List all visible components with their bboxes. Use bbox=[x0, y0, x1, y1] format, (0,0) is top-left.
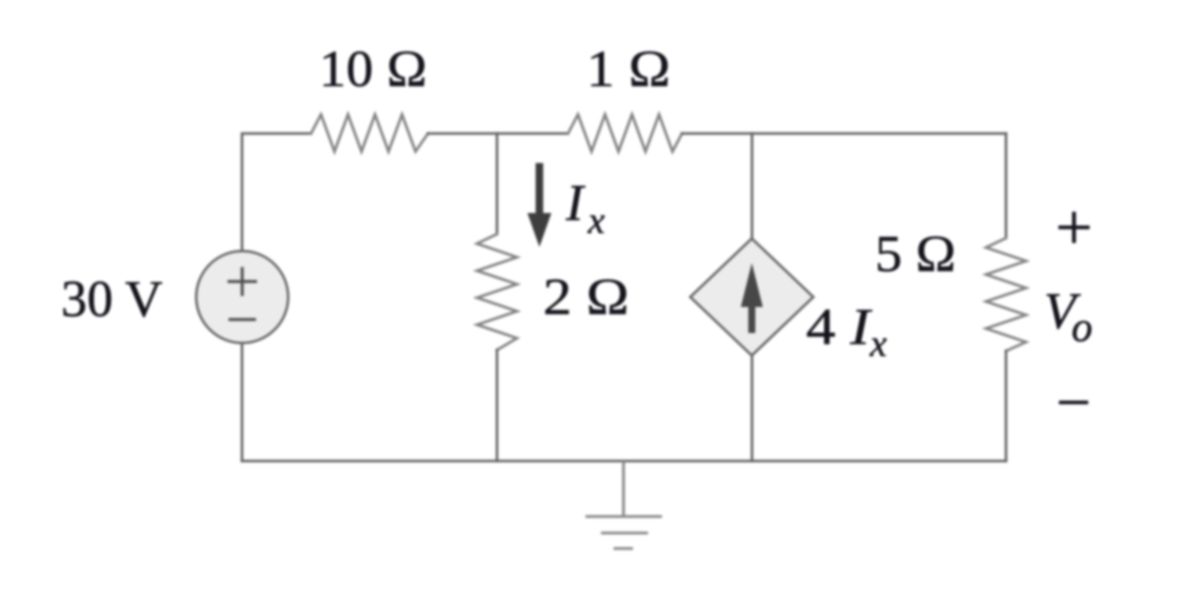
svg-text:30 V: 30 V bbox=[61, 271, 163, 328]
wire right vertical top bbox=[1005, 134, 1008, 239]
svg-text:+: + bbox=[1055, 191, 1092, 264]
resistor R4 5ohm zigzag bbox=[986, 238, 1026, 351]
V1 plus terminal bbox=[228, 267, 258, 320]
wire dep-source bottom lead bbox=[751, 355, 754, 461]
resistor R2 1ohm zigzag bbox=[568, 115, 682, 152]
svg-text:x: x bbox=[587, 200, 605, 242]
svg-text:10 Ω: 10 Ω bbox=[319, 41, 427, 98]
resistor R3 2ohm zigzag bbox=[477, 234, 517, 350]
wire right vertical bottom bbox=[1005, 351, 1008, 461]
svg-text:4 I: 4 I bbox=[806, 299, 873, 356]
dependent current source 4Ix diamond bbox=[690, 239, 813, 356]
wire top-right segment bbox=[682, 132, 1006, 135]
svg-text:1 Ω: 1 Ω bbox=[587, 41, 671, 98]
svg-text:I: I bbox=[565, 175, 586, 232]
wire mid vertical bottom bbox=[496, 350, 499, 461]
wire bottom bbox=[242, 460, 1006, 463]
wire top-middle segment bbox=[428, 132, 568, 135]
svg-text:o: o bbox=[1072, 305, 1093, 351]
svg-text:5 Ω: 5 Ω bbox=[875, 226, 956, 283]
V1 minus terminal bbox=[229, 318, 257, 321]
svg-text:−: − bbox=[1056, 369, 1091, 437]
wire mid vertical top (node A) bbox=[496, 134, 499, 235]
dep source arrow (up) bbox=[741, 263, 763, 333]
wire dep-source top lead bbox=[751, 134, 754, 238]
voltage source V1 30V bbox=[196, 251, 288, 343]
resistor R1 10ohm zigzag bbox=[311, 115, 428, 152]
svg-text:2 Ω: 2 Ω bbox=[543, 269, 629, 326]
current Ix arrow (down) bbox=[527, 163, 551, 247]
wire left-bottom segment bbox=[241, 344, 244, 461]
wire top-left segment bbox=[242, 134, 311, 253]
ground bbox=[586, 461, 663, 549]
svg-text:x: x bbox=[869, 323, 887, 365]
